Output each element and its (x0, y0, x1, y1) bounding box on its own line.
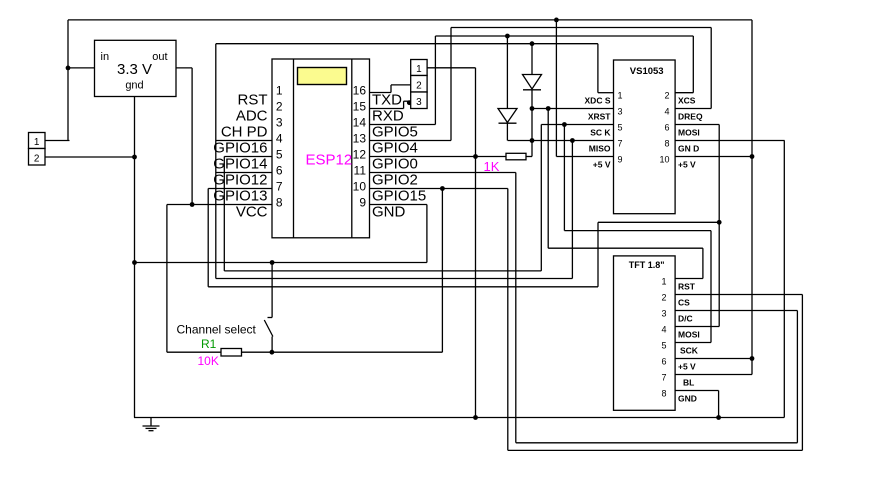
junction ground rail right (716, 415, 721, 420)
svg-text:GPIO14: GPIO14 (213, 156, 267, 173)
switch S1 channel select (264, 263, 273, 353)
ESP12 module U1 (272, 59, 370, 238)
wire SCK link (564, 230, 711, 232)
svg-text:10: 10 (353, 180, 367, 194)
TFT 1.8 module U3 (614, 256, 676, 410)
connector J1 pin 2 (29, 149, 46, 166)
wire TFT BL (675, 374, 753, 376)
wire GPIO12 (216, 172, 272, 174)
wire main gnd drop (134, 97, 136, 418)
svg-text:RXD: RXD (372, 108, 404, 125)
wire MOSI column (718, 125, 720, 327)
svg-text:7: 7 (618, 139, 623, 149)
svg-text:3: 3 (618, 107, 623, 117)
wire regulator in (68, 67, 95, 69)
diode D1 (498, 109, 517, 124)
wire VS GND drop (783, 141, 785, 418)
wire J2 pin1 drop (475, 68, 477, 418)
svg-text:CS: CS (678, 298, 690, 308)
junction VS +5V (750, 154, 755, 159)
wire VS DREQ (675, 108, 711, 110)
svg-text:MISO: MISO (589, 144, 611, 154)
svg-text:2: 2 (34, 154, 40, 165)
wire VS +5V pin10 (675, 156, 752, 158)
resistor 1K (506, 153, 526, 160)
svg-text:5: 5 (661, 341, 666, 351)
connector J2 pin 2 (411, 76, 427, 93)
svg-text:2: 2 (416, 81, 422, 92)
wire XDCS-diode net L4 (216, 43, 598, 45)
wire TFT D/C (675, 310, 798, 312)
VS1053 module U2 (614, 60, 676, 214)
svg-text:2: 2 (664, 91, 669, 101)
svg-text:GPIO0: GPIO0 (372, 156, 418, 173)
wire ESP GND drop (426, 205, 428, 263)
junction switch bottom (270, 350, 275, 355)
svg-text:3: 3 (416, 97, 422, 108)
svg-text:8: 8 (661, 389, 666, 399)
wire RST link (548, 247, 703, 249)
junction MISO bus (570, 138, 575, 143)
svg-text:GND: GND (678, 394, 697, 404)
wire connector J1 pin1 (45, 140, 70, 142)
svg-text:6: 6 (661, 357, 666, 367)
svg-text:11: 11 (354, 164, 367, 178)
svg-text:out: out (152, 51, 167, 63)
svg-text:TFT 1.8": TFT 1.8" (629, 260, 665, 270)
wire SCK bus B (224, 270, 541, 272)
wire D/C riser right (796, 311, 798, 443)
svg-text:GPIO12: GPIO12 (213, 172, 267, 189)
svg-text:6: 6 (276, 164, 283, 178)
wire GPIO15 (370, 188, 508, 190)
wire GPIO15 switch drop (441, 189, 443, 353)
wire GPIO0 (370, 156, 507, 158)
wire GPIO15 CS drop (507, 189, 509, 451)
svg-text:GPIO2: GPIO2 (372, 172, 418, 189)
wire VS GND pin8 (675, 140, 785, 142)
svg-text:15: 15 (353, 100, 367, 114)
wire GPIO4 (370, 140, 452, 142)
connector J2 pin 1 (411, 60, 427, 76)
svg-text:10: 10 (659, 155, 669, 165)
wire DREQ net L2 (451, 27, 711, 29)
wire D/C return bottom (516, 442, 798, 444)
wire connector J2 pin1 (427, 67, 475, 69)
svg-text:RST: RST (678, 282, 696, 292)
svg-text:1K: 1K (484, 159, 500, 174)
wire GPIO13 (208, 188, 272, 190)
svg-text:12: 12 (353, 148, 367, 162)
svg-text:MOSI: MOSI (678, 330, 700, 340)
junction TFT +5V (750, 356, 755, 361)
svg-text:BL: BL (683, 378, 694, 388)
wire TFT RST riser (702, 248, 704, 278)
wire GPIO16-GPIO12 riser (215, 44, 217, 279)
wire 1K right stub (526, 156, 532, 158)
svg-text:GPIO15: GPIO15 (372, 188, 426, 205)
svg-text:GPIO16: GPIO16 (213, 140, 267, 157)
wire GPIO14 drop (223, 157, 225, 271)
svg-text:GND: GND (372, 204, 406, 221)
wire VCC drop (166, 205, 168, 353)
svg-text:4: 4 (276, 132, 283, 146)
wire RXD (370, 108, 404, 110)
svg-text:6: 6 (664, 123, 669, 133)
connector J2 pin 3 (411, 92, 427, 109)
svg-text:1: 1 (276, 84, 283, 98)
svg-text:CH PD: CH PD (221, 124, 268, 141)
wire XDCS riser (597, 44, 599, 93)
svg-text:1: 1 (661, 277, 666, 287)
wire TFT GND drop (718, 391, 720, 418)
svg-text:GPIO13: GPIO13 (213, 188, 267, 205)
ground (143, 418, 160, 431)
svg-text:in: in (101, 51, 110, 63)
junction GPIO0 J2 (473, 154, 478, 159)
svg-text:XCS: XCS (678, 96, 696, 106)
wire J1 pin1 riser (67, 20, 69, 141)
junction GPIO15 switch (440, 186, 445, 191)
svg-text:3: 3 (276, 116, 283, 130)
svg-text:SCK: SCK (680, 346, 699, 356)
voltage regulator 3.3V (95, 40, 177, 96)
wire TFT SCK riser (710, 231, 712, 343)
svg-text:3: 3 (661, 309, 666, 319)
wire XCS stub (675, 92, 693, 94)
svg-text:2: 2 (276, 100, 283, 114)
svg-text:9: 9 (618, 155, 623, 165)
wire TFT MOSI (675, 326, 720, 328)
svg-text:Channel select: Channel select (177, 322, 257, 336)
svg-text:14: 14 (353, 116, 367, 130)
wire MISO bus C (216, 278, 573, 280)
wire GPIO4 riser (450, 28, 452, 141)
wire CS riser right (801, 295, 803, 451)
svg-text:+5 V: +5 V (593, 160, 611, 170)
svg-text:10K: 10K (198, 354, 219, 368)
junction gnd bus (132, 260, 137, 265)
svg-text:R1: R1 (201, 337, 217, 351)
wire ground rail (134, 417, 784, 419)
junction J1 pin2 gnd (132, 155, 137, 160)
wire diode D2 anode riser (531, 44, 533, 75)
junction XRST diode (530, 106, 535, 111)
svg-text:5: 5 (618, 123, 623, 133)
junction MOSI (717, 220, 722, 225)
svg-text:9: 9 (359, 196, 366, 210)
junction +5V top (554, 18, 559, 23)
svg-text:ESP12: ESP12 (306, 152, 353, 169)
junction switch top (270, 260, 275, 265)
wire GND bus A (135, 262, 427, 264)
svg-text:GN D: GN D (678, 144, 699, 154)
junction SCK TFT (562, 122, 567, 127)
junction diode D1 top (505, 34, 510, 39)
wire GPIO5 (370, 124, 436, 126)
svg-text:GPIO4: GPIO4 (372, 140, 418, 157)
wire TXD jog (390, 85, 392, 93)
svg-text:4: 4 (661, 325, 666, 335)
svg-text:1: 1 (34, 137, 40, 148)
junction XRST TFT (546, 106, 551, 111)
wire TFT GND (675, 390, 719, 392)
wire SCK to TFT drop (563, 125, 565, 231)
svg-text:ADC: ADC (236, 108, 268, 125)
svg-text:8: 8 (664, 139, 669, 149)
wire RXD jog (403, 101, 405, 108)
wire GPIO13 drop (207, 189, 209, 287)
svg-text:3.3 V: 3.3 V (117, 61, 152, 78)
svg-text:XRST: XRST (588, 112, 611, 122)
svg-text:+5 V: +5 V (678, 160, 696, 170)
svg-text:DREQ: DREQ (678, 112, 703, 122)
svg-text:SC K: SC K (590, 128, 611, 138)
wire GPIO16 (216, 140, 272, 142)
svg-text:4: 4 (664, 107, 669, 117)
svg-text:7: 7 (276, 180, 283, 194)
wire connector J1 pin2 (45, 156, 135, 158)
junction diode D2 top (530, 41, 535, 46)
resistor R1 (221, 349, 242, 357)
svg-text:1: 1 (618, 91, 623, 101)
svg-text:VCC: VCC (236, 204, 268, 221)
junction MISO diode (530, 138, 535, 143)
wire VS MISO (508, 140, 614, 142)
wire MISO bus riser (571, 141, 573, 279)
junction ground rail left (473, 415, 478, 420)
svg-text:gnd: gnd (125, 80, 143, 92)
svg-text:16: 16 (353, 84, 367, 98)
svg-text:TXD: TXD (372, 92, 402, 109)
wire TFT CS (675, 294, 803, 296)
svg-text:2: 2 (661, 293, 666, 303)
svg-text:+5 V: +5 V (678, 362, 696, 372)
wire regulator out drop (191, 68, 193, 205)
junction J2 pin3 (407, 100, 412, 105)
wire diode D1 cathode drop (506, 123, 508, 140)
wire VS SCK (541, 124, 613, 126)
svg-text:1: 1 (416, 64, 422, 75)
junction regulator in (66, 66, 71, 71)
wire XRST to TFT RST drop (547, 109, 549, 249)
wire TFT RST (675, 278, 703, 280)
svg-text:7: 7 (661, 373, 666, 383)
ESP12 antenna block (298, 68, 347, 85)
wire R1 left (167, 351, 221, 353)
wire regulator out (176, 67, 192, 69)
svg-text:13: 13 (353, 132, 367, 146)
diode D2 (523, 75, 542, 90)
svg-text:5: 5 (276, 148, 283, 162)
junction VCC out (190, 202, 195, 207)
wire diode D2 cathode drop (531, 90, 533, 157)
wire +5V to VS pin9 (555, 20, 557, 157)
wire GPIO5 riser (434, 36, 436, 125)
wire GPIO2 (370, 172, 516, 174)
wire XRST (532, 108, 614, 110)
wire XCS riser (692, 36, 694, 93)
wire CS return bottom (508, 449, 803, 451)
svg-text:8: 8 (276, 196, 283, 210)
wire +5V top rail L1 (68, 19, 752, 21)
svg-text:GPIO5: GPIO5 (372, 124, 418, 141)
wire diode D1 anode riser (506, 36, 508, 109)
wire connector J2 pin3 link (404, 100, 411, 102)
wire GPIO14 (224, 156, 272, 158)
wire GPIO5-XCS net L3 (435, 35, 693, 37)
connector J1 pin 1 (29, 133, 46, 149)
wire GPIO2 drop (515, 173, 517, 443)
wire MOSI bus riser (597, 222, 599, 286)
wire connector J2 pin2 link (391, 84, 411, 86)
wire VS +5V pin9 (556, 156, 613, 158)
wire XDCS stub (598, 92, 614, 94)
wire MOSI bus D (208, 286, 598, 288)
wire MOSI link (598, 221, 719, 223)
wire TFT SCK (675, 342, 712, 344)
wire TFT +5V (675, 358, 753, 360)
svg-text:XDC S: XDC S (585, 96, 611, 106)
wire ESP GND pin9 (370, 204, 427, 206)
svg-text:RST: RST (238, 92, 268, 109)
svg-text:VS1053: VS1053 (630, 66, 664, 77)
wire VS MOSI (675, 124, 719, 126)
wire SCK bus riser (540, 125, 542, 271)
wire DREQ riser (710, 28, 712, 109)
wire R1 right to GPIO15 drop (242, 351, 443, 353)
svg-text:MOSI: MOSI (678, 128, 700, 138)
wire VCC (167, 204, 272, 206)
wire +5V right rail (751, 20, 753, 375)
svg-text:D/C: D/C (678, 314, 693, 324)
wire TXD (370, 92, 392, 94)
